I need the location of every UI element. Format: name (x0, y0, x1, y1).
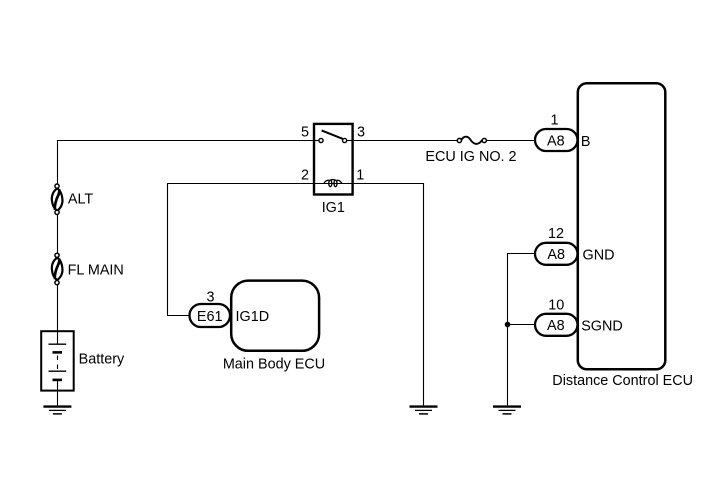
svg-text:FL MAIN: FL MAIN (68, 263, 124, 279)
svg-text:B: B (581, 134, 591, 150)
svg-text:1: 1 (550, 112, 558, 128)
svg-text:3: 3 (357, 124, 365, 140)
svg-text:IG1D: IG1D (236, 309, 270, 325)
svg-text:Main Body ECU: Main Body ECU (223, 356, 325, 372)
svg-text:3: 3 (206, 290, 214, 306)
svg-text:ECU IG NO. 2: ECU IG NO. 2 (425, 149, 516, 165)
svg-text:A8: A8 (547, 247, 565, 263)
svg-text:5: 5 (301, 124, 309, 140)
svg-text:SGND: SGND (581, 318, 623, 334)
svg-text:GND: GND (583, 247, 615, 263)
svg-text:Distance Control ECU: Distance Control ECU (552, 373, 693, 389)
svg-text:A8: A8 (547, 318, 565, 334)
svg-text:E61: E61 (197, 309, 223, 325)
svg-text:12: 12 (548, 226, 564, 242)
svg-text:Battery: Battery (79, 352, 125, 368)
svg-text:A8: A8 (547, 134, 565, 150)
svg-text:10: 10 (548, 297, 564, 313)
svg-text:IG1: IG1 (322, 200, 345, 216)
svg-text:2: 2 (301, 168, 309, 184)
svg-text:ALT: ALT (68, 192, 94, 208)
svg-text:1: 1 (356, 168, 364, 184)
